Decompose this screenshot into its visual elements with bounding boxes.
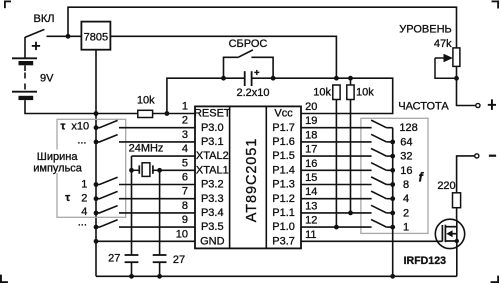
wire right common down to ground [392,128,394,277]
wire 7805 ground lead [95,50,97,114]
IC U1 AT89C2051 [176,101,318,249]
svg-text:P1.5: P1.5 [272,150,295,162]
svg-text:7: 7 [182,186,188,198]
switch S15 1 blade [371,220,386,228]
corner mark top-left [4,1,11,9]
svg-text:...: ... [78,217,87,229]
wire top rail +9V [68,7,457,48]
wire battery negative lead [25,100,138,113]
switch S12 8 blade [371,177,386,185]
svg-text:P1.0: P1.0 [272,221,295,233]
svg-text:220: 220 [437,180,455,192]
corner mark bottom-right [491,276,499,283]
pushbutton SB1 СБРОС [224,38,274,78]
svg-text:P1.7: P1.7 [272,122,295,134]
svg-text:1: 1 [403,222,409,234]
svg-text:10: 10 [176,228,188,240]
resistor R1 10k (reset pulldown) [137,95,155,118]
svg-text:P3.4: P3.4 [201,207,224,219]
right DIP switch block frame [361,118,428,233]
svg-text:24MHz: 24MHz [129,143,164,155]
svg-text:ЧАСТОТА: ЧАСТОТА [398,101,449,113]
svg-text:128: 128 [399,122,417,134]
svg-text:1: 1 [81,179,87,191]
svg-text:P1.4: P1.4 [272,164,295,176]
wire pin10 GND [96,240,195,242]
node junction dot R3 bottom P1.1 [348,211,353,216]
wire reset node to pin1 [167,78,244,113]
svg-text:τ: τ [65,192,70,204]
wire common stubs [386,127,392,129]
svg-text:14: 14 [305,186,317,198]
svg-text:11: 11 [305,229,316,241]
switch S8 128 blade [371,120,386,128]
svg-text:32: 32 [400,151,412,163]
node junction dot 7805 gnd / battery minus [94,111,99,116]
svg-text:6: 6 [182,172,188,184]
svg-text:2: 2 [403,207,409,219]
switch SA1 ВКЛ blade [25,29,44,37]
wire P1.4 pin16 [301,169,372,171]
svg-text:IRFD123: IRFD123 [404,255,446,267]
node junction dot R3 top [348,76,353,81]
corner mark bottom-left [0,275,8,283]
wire gate from pin 11 [301,240,442,242]
svg-text:P3.0: P3.0 [201,122,224,134]
wire 7805 output to +5V rail [110,36,336,78]
svg-text:GND: GND [200,235,225,247]
svg-text:27: 27 [108,252,120,264]
wire P1.0 pin12 [301,226,372,228]
svg-text:XTAL2: XTAL2 [196,150,229,162]
switch S3 ... (pin3 P3.1) [77,135,195,147]
svg-text:AT89C2051: AT89C2051 [244,138,260,222]
svg-text:P3.1: P3.1 [201,136,224,148]
node junction dots right common [390,140,395,145]
svg-text:Vcc: Vcc [274,108,293,120]
wire P1.5 pin17 [301,155,372,157]
svg-text:10k: 10k [137,95,155,107]
node junction dot right bracket [271,76,276,81]
switch S4 1 (pin6 P3.2) [81,177,195,190]
switch S7 ... (pin9 P3.5) [78,217,195,230]
svg-text:P3.2: P3.2 [201,179,224,191]
svg-text:7805: 7805 [84,31,108,43]
switch S2 x10 (pin2 P3.0) [61,120,196,132]
svg-text:XTAL1: XTAL1 [196,164,229,176]
switch S10 32 blade [371,149,386,157]
wire P1.6 pin18 [301,141,372,143]
node junction dot R2 bottom P1.0 [334,225,339,230]
svg-text:P3.7: P3.7 [272,235,295,247]
svg-text:12: 12 [305,215,317,227]
svg-text:20: 20 [305,101,317,113]
battery GB1 9V [12,42,54,100]
svg-text:P1.1: P1.1 [272,207,295,219]
capacitor C1 2.2x10 [236,70,269,99]
svg-text:16: 16 [400,165,412,177]
transistor VT1 IRFD123 MOSFET [404,219,465,276]
node junction dot switch/top-rail [66,34,71,39]
regulator U2 7805 [81,22,110,50]
switch S9 64 blade [371,134,386,142]
svg-text:1: 1 [182,101,188,113]
wire battery positive lead [24,37,26,58]
terminal - output [457,154,497,193]
svg-text:17: 17 [305,144,317,156]
resistor R2 10k pullup P1.0 [313,85,340,227]
crystal ZQ1 24MHz [129,143,195,255]
potentiometer R4 47k УРОВЕНЬ [399,24,480,108]
svg-text:27: 27 [173,254,185,266]
terminal + output [488,99,496,110]
wire ground to 10k resistor [153,113,195,115]
node junction dot left bracket [221,76,226,81]
svg-text:3: 3 [182,129,188,141]
wire P1.2 pin14 [301,198,372,200]
svg-text:9V: 9V [40,73,54,85]
corner mark top-right [492,1,500,9]
labels switch weights [399,122,417,233]
switch S6 4 (pin8 P3.4) [81,206,195,218]
svg-text:2: 2 [81,192,87,204]
svg-text:47k: 47k [434,38,452,50]
resistor R5 220 [437,180,460,219]
wire P1.7 pin19 [301,127,372,129]
svg-text:10k: 10k [313,87,331,99]
switch S5 2 (pin7 P3.3) [65,191,195,204]
svg-text:ВКЛ: ВКЛ [34,13,55,25]
svg-text:13: 13 [305,200,317,212]
svg-text:5: 5 [182,157,188,169]
svg-text:P1.3: P1.3 [272,179,295,191]
resistor R3 10k pullup P1.1 [347,78,374,213]
node junction dot pot wiper/bottom [454,76,459,81]
svg-text:64: 64 [400,136,412,148]
wire P1.3 pin15 [301,184,372,186]
svg-text:10k: 10k [356,87,374,99]
label Ширина импульса (white bg over frame) [33,150,83,175]
svg-text:RESET: RESET [194,108,231,120]
svg-text:15: 15 [305,172,317,184]
left DIP switch block frame [57,119,126,217]
node junction dot reset/resistor [165,111,170,116]
node junction dot R2 top [334,76,339,81]
svg-text:2: 2 [182,115,188,127]
capacitor C3 27 [153,254,185,279]
svg-text:19: 19 [305,115,317,127]
right DIP switches (pins 19-12) [301,128,372,227]
wire left switch common down [95,114,97,277]
svg-text:Ширина: Ширина [37,151,79,163]
wire P1.1 pin13 [301,212,372,214]
svg-text:2.2x10: 2.2x10 [236,87,269,99]
svg-text:8: 8 [182,200,188,212]
node junction dot pin10/common [94,239,99,244]
svg-text:8: 8 [403,179,409,191]
svg-text:4: 4 [403,193,409,205]
switch S11 16 blade [371,163,386,171]
svg-text:P1.6: P1.6 [272,136,295,148]
svg-text:9: 9 [182,214,188,226]
switch S13 4 blade [371,191,386,199]
svg-text:УРОВЕНЬ: УРОВЕНЬ [399,24,451,36]
svg-text:x10: x10 [71,121,89,133]
svg-text:τ: τ [61,121,66,133]
svg-text:16: 16 [305,158,317,170]
svg-text:СБРОС: СБРОС [229,38,268,50]
switch S14 2 blade [371,205,386,213]
wire +5V rail to Vcc [252,78,392,113]
svg-text:18: 18 [305,129,317,141]
svg-text:...: ... [77,135,86,147]
svg-text:4: 4 [182,143,188,155]
svg-text:P1.2: P1.2 [272,193,295,205]
wire ground rail bottom [96,275,457,277]
svg-text:P3.3: P3.3 [201,193,224,205]
wire battery plus to 7805 input [47,35,82,37]
capacitor C2 27 [108,252,138,278]
svg-text:P3.5: P3.5 [201,221,224,233]
svg-text:импульса: импульса [33,162,83,174]
